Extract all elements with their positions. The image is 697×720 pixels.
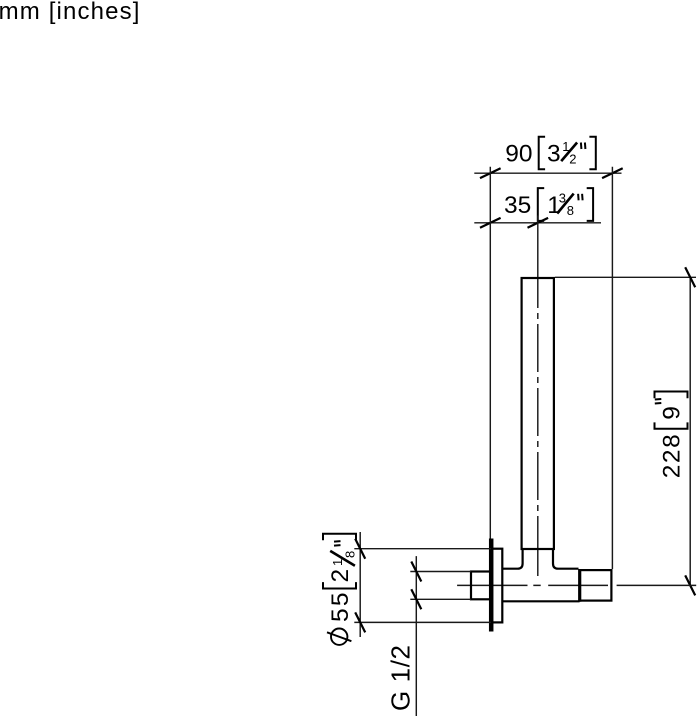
thick line at cap left / body end [578,569,581,602]
dimension text 228 [9"] rotated [655,392,688,479]
extension line center (tube axis) for dim 35 [537,216,539,279]
thread label G 1/2 rotated [386,644,416,711]
inlet nipple behind wall [471,572,491,600]
neck below tube shoulder with fillets into body top [503,549,523,569]
dimension line 90 [474,172,621,174]
wall flange (rosette) [491,549,502,623]
tick bottom of dim 228 [685,575,695,595]
vertical centerline of tube (dash-dot) [537,278,539,576]
extension line flange top for dim 55 [354,548,491,550]
tick top of G 1/2 [411,562,421,582]
extension line nipple top for thread label [410,571,471,573]
extension line right (body end) for dim 90 [611,167,613,569]
dimension text diameter 55 [2 1/8"] rotated [323,534,357,645]
extension line left (wall plane) for dims 90/35 [489,167,491,540]
svg-text:8: 8 [342,551,357,558]
tick bottom of G 1/2 [411,589,421,609]
body bottom line [503,600,580,602]
svg-text:228: 228 [659,433,686,479]
svg-text:2: 2 [327,569,354,583]
svg-text:G 1/2: G 1/2 [386,644,416,711]
svg-text:8: 8 [567,203,574,218]
tick right of dim 35 [528,218,549,228]
extension line flange bottom for dim 55 [354,621,491,623]
dimension line 228 [689,277,691,585]
horizontal centerline of body (dash-dot) [457,584,696,586]
wall line (thick) [489,539,494,632]
dimension text 90 [3 1/2"] [505,137,596,170]
dimension line 35 [474,222,601,224]
tick right of dim 90 [602,168,623,178]
tick top of dim 55 [355,539,365,559]
tick top of dim 228 [685,267,695,287]
tick bottom of dim 55 [355,612,365,632]
tick left of dim 35 [480,218,501,228]
svg-text:90: 90 [505,140,532,167]
svg-text:3: 3 [547,140,561,167]
dimension line 55 (vertical) [359,532,361,637]
extension line nipple bottom for thread label [410,598,471,600]
svg-text:55: 55 [327,590,354,622]
svg-text:mm [inches]: mm [inches] [0,0,141,25]
dimension text 35 [1 3/8"] [504,188,593,221]
svg-text:9: 9 [659,406,686,420]
tick left of dim 90 [480,168,501,178]
body end cap [580,570,612,601]
svg-text:2: 2 [569,151,576,166]
svg-text:35: 35 [504,192,531,219]
extension line from tube top to dim 228 [555,276,696,278]
tube (vertical pipe) [522,278,554,549]
leader line G 1/2 (vertical) [415,556,417,716]
